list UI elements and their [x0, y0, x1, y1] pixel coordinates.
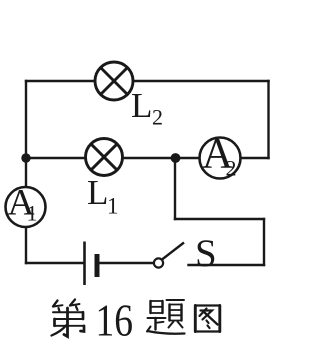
node junction left — [21, 153, 30, 162]
svg-text:1: 1 — [27, 201, 38, 226]
battery cell — [85, 242, 98, 286]
wire right lower vertical — [263, 219, 265, 265]
lamp L2 — [95, 62, 133, 100]
caption char TU (figure) — [195, 306, 220, 332]
svg-text:2: 2 — [226, 156, 237, 181]
ammeter A1 — [6, 183, 46, 228]
caption char TI (question) — [147, 300, 185, 334]
ammeter A2 — [200, 131, 241, 181]
svg-text:1: 1 — [107, 194, 119, 219]
wire middle row — [26, 157, 269, 159]
wire right upper vertical — [267, 81, 269, 158]
wire node drop — [174, 158, 176, 219]
svg-text:S: S — [195, 232, 217, 275]
switch lever — [162, 243, 184, 260]
wire battery to switch — [98, 262, 155, 264]
wire left vertical — [25, 81, 27, 263]
svg-text:16: 16 — [96, 295, 134, 340]
node junction right — [171, 153, 181, 163]
wire switch fixed side — [189, 264, 265, 266]
switch S pivot — [154, 258, 163, 267]
wire connector — [175, 218, 264, 220]
svg-text:2: 2 — [152, 105, 163, 130]
lamp L1 — [86, 139, 123, 176]
svg-text:L: L — [87, 173, 108, 212]
wire top row — [26, 80, 269, 82]
wire bottom-left to battery — [26, 262, 83, 264]
caption char DI (first) — [52, 300, 85, 337]
svg-text:L: L — [131, 86, 152, 125]
